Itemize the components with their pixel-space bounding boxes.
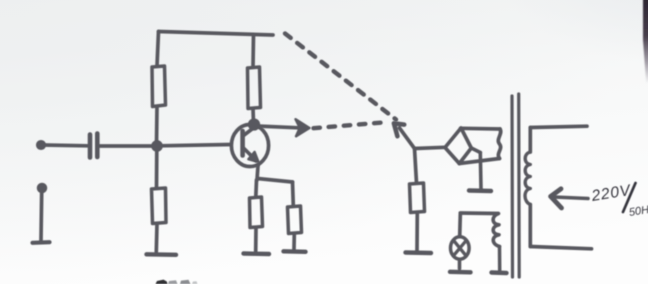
ground bar R6 [406,250,432,255]
resistor R3 [152,188,167,224]
emitter arrowhead [248,152,258,162]
wire C1 to node A [100,144,153,148]
mains arrowhead [551,189,562,208]
wire down to R4 [254,180,258,197]
dark scan streak top-right [643,0,648,84]
wire node A to base [160,145,231,146]
lamp stub down [458,261,462,269]
wire R4 to ground [254,228,258,252]
earpiece inner edge [471,148,480,153]
capacitor C1 [88,135,93,158]
wire junction to earpiece [415,147,446,148]
lamp stub up [458,215,462,237]
ground bar lamp [450,270,471,275]
terminal 2 dot [39,185,46,192]
ground bar R5 [284,249,306,254]
wire emitter down [257,166,258,181]
transistor Q1 collector stroke [244,125,259,136]
signal arrowhead [296,119,310,136]
lamp cross [454,240,467,255]
wire R1 to node A [155,107,159,145]
earpiece box top edge [461,126,501,130]
resistor R2 [248,67,261,109]
wire R2 to collector node [251,109,255,124]
mains arrow shaft [554,197,588,199]
transformer core line 1 [510,96,514,277]
dashed beam lower [314,122,390,128]
wire input to C1 [43,143,87,148]
terminal 2 stem wire [39,192,43,241]
resistor R6 [410,183,425,213]
wire R6 to ground [415,213,419,252]
dashed beam upper [285,34,396,129]
resistor R4 [250,197,263,228]
transistor Q1 body [231,125,268,167]
secondary vertical [528,128,532,153]
terminal 2 bar [33,240,50,245]
earpiece diamond face [445,128,471,164]
wire node A down to R3 [155,149,159,188]
transistor Q1 emitter stroke [244,149,256,161]
ground bar earpiece [469,188,491,193]
earpiece box bottom edge [459,159,499,164]
wire junction to R6 [415,149,417,184]
wire L1 to bar [498,247,502,271]
wire left drop to R1 [157,32,159,67]
node A junction dot [153,142,161,150]
bottom bar L1 [492,270,507,275]
convergence arrowhead [394,123,404,136]
secondary bottom terminal wire [530,247,591,249]
wire lamp to primary coil [460,211,497,215]
label 220V/50Hz [589,182,648,219]
wire right drop to R2 [251,35,255,67]
collector junction blob [250,120,259,129]
resistor R5 [288,206,302,234]
wire branch down to R5 [291,182,295,206]
resistor R1 [152,66,166,107]
wire R3 to ground [154,224,158,252]
earpiece box wavy right edge [498,129,500,159]
ground bar R4 [244,251,270,256]
inductor L1 primary coil [493,214,499,247]
signal arrow from collector [257,126,299,128]
input terminal dot [38,142,44,148]
cut-off caption bottom [156,280,198,284]
lamp circle [451,237,470,259]
ground bar R3 [147,252,177,257]
wire arrow tail to junction [400,128,415,149]
wire emitter branch right [258,179,293,183]
secondary vertical lower [528,205,532,247]
wire R5 to ground [292,234,296,250]
earpiece stem [478,153,482,189]
transistor Q1 base bar [240,131,245,156]
transformer core line 2 [517,94,521,277]
inductor L2 secondary coil [525,152,530,205]
secondary top terminal wire [531,126,588,127]
wire top rail [159,32,274,36]
